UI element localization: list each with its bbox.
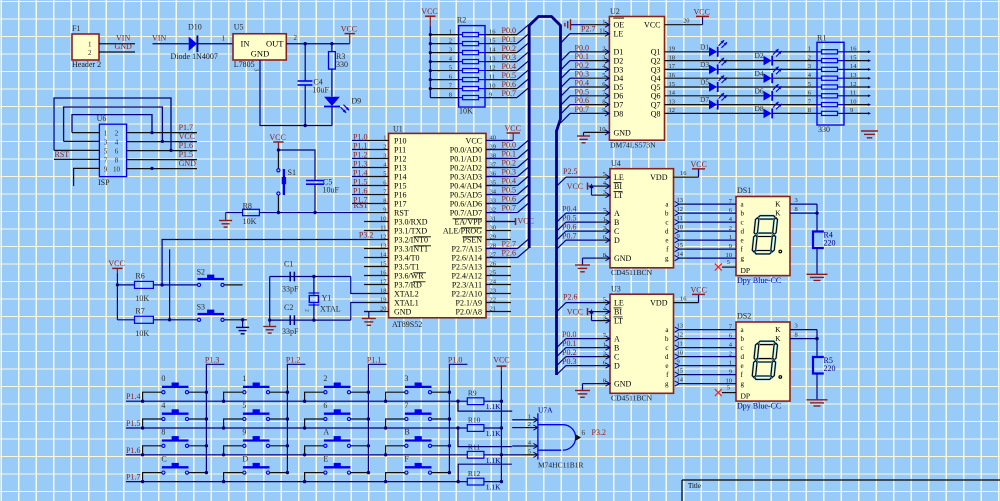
svg-text:R9: R9 [468, 389, 477, 398]
svg-text:P1.1: P1.1 [353, 141, 367, 150]
svg-text:1.1K: 1.1K [486, 456, 501, 465]
wire S2 right [224, 284, 243, 286]
wire crystal top rail [270, 277, 364, 294]
net label P1.0 [353, 132, 367, 141]
wire RST to U6 pin7 [54, 158, 99, 160]
svg-text:P10: P10 [394, 136, 406, 145]
net label P0.3 at U3 [562, 357, 576, 366]
svg-text:11: 11 [677, 215, 683, 222]
svg-text:P0.6: P0.6 [502, 80, 516, 89]
svg-text:Q8: Q8 [651, 109, 661, 118]
wire P0.7 to U4 D with bus entry [557, 240, 597, 249]
svg-text:P0.0: P0.0 [502, 26, 516, 35]
svg-text:g: g [665, 380, 669, 388]
svg-text:D5: D5 [614, 83, 624, 92]
switch S2 [197, 268, 224, 287]
wire VCC to S1 and C5 [277, 148, 315, 180]
svg-text:P0.3/AD3: P0.3/AD3 [450, 172, 482, 181]
resistor network R1 330 [817, 34, 844, 134]
wire R1 row 2 to ground rail [808, 54, 871, 62]
svg-text:11: 11 [850, 90, 856, 97]
svg-text:P1.5: P1.5 [126, 419, 140, 428]
svg-text:3: 3 [383, 153, 386, 160]
net label P0.7 at U4 [562, 231, 576, 240]
U3 left pin stubs [597, 296, 610, 386]
svg-text:Dpy Blue-CC: Dpy Blue-CC [737, 402, 781, 411]
power VCC above S1 [269, 133, 285, 150]
svg-text:13: 13 [489, 55, 496, 62]
svg-text:Q5: Q5 [651, 83, 661, 92]
digit 8 of DS1 [752, 216, 782, 254]
svg-text:7: 7 [104, 156, 108, 164]
svg-text:P0.1: P0.1 [575, 52, 589, 61]
LED D6 [755, 84, 782, 101]
svg-text:A: A [614, 209, 620, 218]
wire VIN to D10 anode [153, 43, 189, 45]
svg-text:P1.4: P1.4 [126, 392, 140, 401]
display DS2 Dpy Blue-CC body [736, 312, 790, 411]
svg-text:5: 5 [727, 385, 730, 392]
svg-text:P1.3: P1.3 [205, 355, 219, 364]
svg-text:Q3: Q3 [651, 65, 661, 74]
U3 output pin stubs [675, 323, 687, 387]
svg-text:VCC: VCC [567, 307, 583, 316]
svg-text:10: 10 [726, 252, 733, 259]
wire U3 g to DS2 segment g [687, 377, 736, 384]
net label P2.5 at U4 [563, 167, 577, 176]
wire R1 row 7 to ground rail [808, 98, 871, 106]
wire P1.6 to U1 pin 7 [352, 194, 364, 196]
net label P0.2 at U1 [502, 159, 516, 168]
switch key D [242, 454, 269, 474]
capacitor C1 33pF [282, 260, 299, 294]
svg-text:D: D [614, 362, 620, 371]
svg-text:C1: C1 [284, 260, 293, 269]
wire P0.4 to U4 A with bus entry [557, 213, 597, 222]
svg-text:220: 220 [824, 238, 836, 247]
svg-text:21: 21 [490, 306, 497, 313]
net label P0.7 at U2 [575, 105, 589, 114]
svg-text:CD4511BCN: CD4511BCN [611, 394, 653, 403]
wire R2 row 4 [430, 52, 528, 63]
gate U7A output [576, 429, 586, 441]
svg-text:3: 3 [603, 314, 606, 321]
wire P0.6 from U1 pin 33 with bus entry [486, 194, 529, 204]
power VCC above R6 [108, 259, 124, 273]
crystal Y1 XTAL [304, 277, 341, 321]
svg-text:e: e [741, 236, 744, 244]
svg-text:10: 10 [113, 165, 121, 173]
decoder U4 CD4511BCN body [610, 159, 674, 277]
resistor R11 1.1K [467, 442, 501, 465]
wires key 0 [141, 391, 208, 403]
svg-text:P2.7/A15: P2.7/A15 [452, 244, 482, 253]
net label P0.4 at U2 [575, 79, 589, 88]
net label P1.4 [353, 168, 367, 177]
svg-text:D4: D4 [614, 74, 624, 83]
svg-text:14: 14 [850, 63, 857, 70]
resistor R7 10K [135, 307, 154, 338]
DS2 DP pin with no-connect X [715, 385, 736, 397]
svg-text:d: d [665, 227, 669, 235]
wire VCC to R6/R7 [116, 274, 135, 320]
net label P2.6 at U3 [563, 292, 577, 301]
svg-text:8: 8 [603, 377, 606, 384]
svg-text:M74HC11B1R: M74HC11B1R [538, 460, 584, 469]
regulator U5 L7805 [233, 23, 286, 72]
svg-text:U6: U6 [97, 114, 107, 123]
wire from row P1.4 to gate area [456, 400, 512, 412]
net label P2.7 at U2 [581, 24, 595, 33]
wire P0.7 to U2 D8 with bus entry [561, 113, 585, 123]
title block [682, 480, 1000, 501]
svg-text:A: A [323, 428, 329, 437]
switch key 7 [404, 401, 431, 421]
svg-text:8: 8 [603, 252, 606, 259]
wire R1 row 4 to ground rail [808, 72, 871, 80]
svg-text:P15: P15 [394, 181, 406, 190]
svg-text:2: 2 [449, 37, 452, 44]
LED D5 [700, 75, 727, 92]
net label P0.5 at U1 [502, 186, 516, 195]
wire U5 OUT to VCC rail [286, 34, 349, 44]
svg-text:RST: RST [354, 201, 369, 210]
LED D3 [700, 58, 727, 75]
svg-text:25: 25 [490, 270, 497, 277]
wires key 3 [384, 391, 451, 403]
svg-text:d: d [741, 227, 745, 235]
net label P1.5 at U6 [179, 150, 193, 159]
svg-text:P1.2: P1.2 [353, 150, 367, 159]
svg-text:1: 1 [729, 234, 732, 241]
svg-text:10uF: 10uF [313, 86, 330, 95]
ground under R5 [807, 400, 828, 406]
wire P0.6 to U4 C with bus entry [557, 231, 597, 240]
svg-text:K: K [775, 200, 781, 209]
LED D9 [324, 96, 361, 125]
svg-text:R1: R1 [817, 34, 826, 43]
svg-text:P1.5: P1.5 [179, 150, 193, 159]
svg-text:17: 17 [380, 279, 387, 286]
wire VIN from F1 pin1 [99, 43, 135, 45]
svg-text:1: 1 [104, 129, 108, 137]
wire P0.2 from U1 pin 37 with bus entry [486, 158, 529, 168]
U1 overlines [413, 219, 482, 282]
wire P0.3 to U3 D with bus entry [557, 366, 597, 375]
wire R2 row 1 [430, 25, 528, 36]
wire GND from F1 pin2 [99, 51, 135, 53]
svg-text:P1.7: P1.7 [126, 473, 140, 482]
LED D1 [700, 40, 727, 57]
svg-text:10uF: 10uF [323, 186, 340, 195]
svg-text:2: 2 [383, 144, 386, 151]
svg-text:C2: C2 [284, 303, 293, 312]
svg-text:VDD: VDD [650, 299, 668, 308]
svg-text:XTAL2: XTAL2 [394, 289, 419, 298]
svg-text:16: 16 [680, 170, 687, 177]
svg-text:P0.5: P0.5 [502, 71, 516, 80]
ground at U1 pin20 [362, 312, 376, 326]
net label P0.3 at U1 [502, 168, 516, 177]
svg-text:VCC: VCC [466, 136, 482, 145]
svg-text:11: 11 [380, 225, 386, 232]
net label P0.7 at R2 [502, 89, 516, 98]
ground at U4 GND [575, 258, 597, 272]
svg-text:P0.3: P0.3 [502, 168, 516, 177]
svg-text:14: 14 [677, 251, 684, 258]
svg-text:24: 24 [490, 279, 497, 286]
svg-text:d: d [665, 353, 669, 361]
svg-text:8: 8 [161, 428, 165, 437]
wire P2.7 from U1 pin28 with bus entry [486, 239, 529, 249]
svg-text:S1: S1 [288, 168, 296, 177]
wires key F [384, 471, 451, 483]
wire P0.2 to U3 C with bus entry [557, 357, 597, 366]
svg-text:13: 13 [850, 72, 857, 79]
svg-text:GND: GND [115, 42, 133, 51]
svg-text:1.1K: 1.1K [486, 402, 501, 411]
wire U2 Q1 to LED D1 [665, 51, 818, 53]
wire P1.1 to U1 pin 2 [352, 149, 364, 151]
svg-text:VCC: VCC [493, 355, 509, 364]
svg-text:10: 10 [489, 82, 496, 89]
wire keypad column P1.3 [206, 364, 224, 472]
wire U5 GND down and right [260, 60, 332, 126]
svg-text:P0.7: P0.7 [502, 204, 516, 213]
svg-text:D6: D6 [614, 92, 624, 101]
net label P0.2 at R2 [502, 44, 516, 53]
svg-text:Diode 1N4007: Diode 1N4007 [171, 52, 218, 61]
LED D4 [755, 66, 782, 83]
svg-text:Y1: Y1 [322, 294, 332, 303]
svg-text:P3.1/TXD: P3.1/TXD [394, 226, 427, 235]
wire R6 to S2 [153, 283, 197, 286]
svg-text:Q2: Q2 [651, 57, 661, 66]
svg-text:GND: GND [614, 380, 632, 389]
wire U6 right pins to net labels [127, 133, 197, 169]
svg-text:1: 1 [222, 34, 226, 42]
svg-text:22: 22 [490, 297, 497, 304]
svg-text:P1.2: P1.2 [286, 355, 300, 364]
svg-text:P0.1: P0.1 [502, 35, 516, 44]
svg-text:AT89S52: AT89S52 [392, 320, 422, 329]
wires key B [384, 444, 451, 456]
svg-text:9: 9 [850, 107, 853, 114]
svg-text:R12: R12 [468, 469, 481, 478]
net label RST at U6 [55, 150, 70, 159]
svg-text:10: 10 [677, 224, 684, 231]
svg-text:P1.0: P1.0 [353, 132, 367, 141]
svg-text:2: 2 [304, 309, 310, 312]
svg-text:C: C [614, 227, 619, 236]
svg-text:P2.1/A9: P2.1/A9 [456, 298, 482, 307]
resistor R10 1.1K [467, 416, 501, 439]
wire U3 a to DS2 segment a [687, 323, 736, 330]
switch key 4 [161, 401, 188, 421]
wire U2 Q5 to LED D5 [665, 86, 818, 88]
wire P0.3 from U1 pin 36 with bus entry [486, 167, 529, 177]
resistor R9 1.1K [467, 389, 501, 412]
wire P0.2 to U2 D3 with bus entry [561, 69, 585, 79]
svg-text:BI: BI [614, 182, 622, 191]
wire P1.3 to U1 pin 4 [352, 167, 364, 169]
svg-text:P2.4/A12: P2.4/A12 [452, 271, 482, 280]
svg-text:2: 2 [729, 225, 732, 232]
wire D10 cathode to U5 IN [197, 34, 233, 43]
svg-text:C: C [614, 353, 619, 362]
svg-text:4: 4 [115, 138, 119, 146]
svg-text:P3.4/T0: P3.4/T0 [394, 253, 420, 262]
ground at S3 [236, 327, 249, 333]
svg-text:2: 2 [602, 46, 605, 53]
svg-text:P2.6: P2.6 [502, 249, 516, 258]
svg-text:S3: S3 [197, 303, 205, 312]
wire R2 row 6 [430, 70, 528, 81]
svg-text:LE: LE [614, 299, 624, 308]
svg-text:GND: GND [614, 128, 632, 137]
net label P1.6 at U6 [179, 141, 193, 150]
svg-text:9: 9 [729, 243, 732, 250]
wire U3 d to DS2 segment d [687, 350, 736, 357]
wire DS2 K pins to resistor [790, 323, 819, 357]
svg-text:10: 10 [677, 350, 684, 357]
svg-text:P2.6: P2.6 [563, 292, 577, 301]
svg-text:P0.2: P0.2 [502, 44, 516, 53]
wires key 2 [303, 391, 370, 403]
power VCC above C4/R3 [341, 24, 357, 43]
wire U4 d to DS1 segment d [687, 225, 736, 232]
svg-text:330: 330 [818, 125, 830, 134]
svg-text:S2: S2 [197, 268, 205, 277]
junction dots crystal [268, 275, 315, 322]
svg-text:1.1K: 1.1K [486, 429, 501, 438]
wire P0.4 from U1 pin 35 with bus entry [486, 176, 529, 186]
svg-text:VCC: VCC [694, 8, 710, 17]
svg-text:10K: 10K [459, 107, 473, 116]
svg-text:D8: D8 [755, 104, 764, 113]
svg-text:B: B [614, 218, 619, 227]
svg-text:P0.7: P0.7 [575, 105, 589, 114]
svg-text:10K: 10K [135, 294, 149, 303]
net label P0.3 at U2 [575, 70, 589, 79]
svg-text:16: 16 [680, 295, 687, 302]
U1 pin stubs and numbers [364, 135, 511, 313]
svg-text:P0.6/AD6: P0.6/AD6 [450, 199, 482, 208]
net label RST at U1 [354, 201, 369, 210]
wire P1.7 to U1 pin 8 [352, 203, 364, 205]
svg-text:10: 10 [599, 126, 606, 133]
net label P0.4 at U1 [502, 177, 516, 186]
svg-text:e: e [741, 362, 744, 370]
svg-text:12: 12 [380, 234, 387, 241]
svg-text:DP: DP [741, 392, 751, 401]
decoder U3 CD4511BCN body [610, 285, 674, 403]
svg-text:19: 19 [380, 297, 387, 304]
wire P0.1 to U3 B with bus entry [557, 348, 597, 357]
header U6 ISP [97, 114, 127, 187]
svg-text:8: 8 [383, 198, 386, 205]
svg-text:15: 15 [850, 54, 857, 61]
power VCC at U1 pin 40 [486, 124, 521, 141]
svg-text:L7805: L7805 [234, 60, 255, 69]
U4 output pin stubs [675, 197, 687, 261]
svg-text:R6: R6 [135, 272, 144, 281]
net label P0.1 at R2 [502, 35, 516, 44]
svg-text:P0.7: P0.7 [502, 89, 516, 98]
resistor R3 330 [329, 42, 349, 96]
wire P2.7 to U2 LE with bus entry [561, 34, 585, 44]
net label P1.7 [126, 473, 140, 482]
svg-text:P0.7: P0.7 [562, 231, 576, 240]
switch key F [404, 454, 431, 474]
svg-text:VCC: VCC [108, 259, 124, 268]
switch S1 [277, 168, 296, 195]
net label P1.3 [205, 355, 219, 364]
svg-text:5: 5 [727, 259, 730, 266]
wire R2 row 2 [430, 34, 528, 45]
net label GND at U6 [179, 159, 197, 168]
wire R1 row 3 to ground rail [808, 63, 871, 71]
svg-text:b: b [665, 209, 669, 217]
connector F1 (Header 2) [72, 24, 101, 69]
svg-text:b: b [741, 335, 745, 343]
wire R2 row 3 [430, 43, 528, 54]
svg-text:2: 2 [528, 421, 531, 428]
svg-text:1: 1 [88, 40, 92, 48]
svg-text:P2.7: P2.7 [581, 24, 595, 33]
svg-text:D5: D5 [700, 78, 709, 87]
svg-text:DS2: DS2 [737, 312, 751, 321]
svg-text:P2.7: P2.7 [502, 240, 516, 249]
wire P3.2 from S2 to U1 pin12 [162, 240, 364, 285]
wires key 9 [222, 444, 289, 456]
svg-text:2: 2 [603, 225, 606, 232]
net label P0.5 at U2 [575, 87, 589, 96]
svg-text:OE: OE [614, 21, 625, 30]
svg-text:LT: LT [614, 191, 623, 200]
svg-text:D3: D3 [700, 60, 709, 69]
wire DS1 K pins to resistor [790, 197, 819, 231]
wire P0.5 to U2 D6 with bus entry [561, 96, 585, 106]
wire P0.1 from U1 pin 38 with bus entry [486, 149, 529, 159]
gate U7A M74HC11B1R [538, 405, 584, 469]
bus P0 [529, 17, 560, 376]
net label P3.2 left of U1 [359, 230, 373, 239]
svg-text:DP: DP [741, 266, 751, 275]
wire P0.3 to U2 D4 with bus entry [561, 78, 585, 88]
net label P0.0 at U3 [562, 330, 576, 339]
svg-text:10: 10 [850, 98, 857, 105]
svg-text:P0.3: P0.3 [502, 53, 516, 62]
svg-text:8: 8 [449, 91, 452, 98]
svg-text:Q6: Q6 [651, 92, 661, 101]
wire R12 to VCC [484, 481, 502, 483]
wire keypad row P1.6 [126, 454, 467, 456]
power VCC port at U3 BI/LT [567, 307, 597, 320]
wire U2 Q4 to LED D4 [665, 77, 818, 79]
svg-text:P1.6: P1.6 [179, 141, 193, 150]
wire loop U6 pin1 [72, 115, 152, 133]
svg-text:14: 14 [677, 377, 684, 384]
display DS1 Dpy Blue-CC body [736, 186, 790, 285]
svg-text:P0.4: P0.4 [562, 204, 576, 213]
svg-text:3: 3 [603, 189, 606, 196]
wire R2 row 8 [430, 88, 528, 99]
net label P1.5 [126, 419, 140, 428]
svg-text:12: 12 [677, 206, 684, 213]
svg-text:K: K [775, 209, 781, 218]
wire R1 row 8 to ground rail [808, 107, 871, 115]
